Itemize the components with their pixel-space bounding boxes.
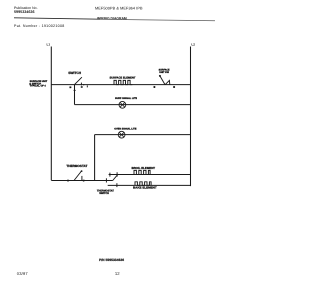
wire row3 drop to thermostat line: [94, 135, 96, 181]
svg-text:SURF SIGNAL LITE: SURF SIGNAL LITE: [115, 97, 137, 100]
wire row2 indicator line: [75, 104, 191, 106]
wire row3 indicator line: [95, 134, 191, 136]
svg-text:L1: L1: [47, 42, 51, 46]
svg-text:OVEN SIGNAL LITE: OVEN SIGNAL LITE: [114, 127, 137, 130]
svg-text:SWITCH: SWITCH: [99, 192, 109, 195]
schematic small labels: [29, 68, 170, 194]
resistor broil element: [134, 170, 150, 174]
wire pilot drop: [74, 85, 76, 105]
svg-text:5995334636: 5995334636: [14, 10, 35, 14]
switch SW1 contact tick: [80, 83, 82, 86]
selector blade to broil: [113, 175, 118, 181]
svg-text:P/N 5995334636: P/N 5995334636: [99, 258, 124, 262]
selector tick on feed: [105, 178, 107, 182]
switch SW2 terminal marks: [154, 86, 175, 87]
switch SW1 blade: [75, 77, 82, 84]
wire L2 bus vertical: [190, 47, 192, 187]
wire broil branch: [109, 174, 191, 176]
svg-text:12: 12: [115, 271, 120, 276]
svg-text:Pat. Number - 1910021008: Pat. Number - 1910021008: [14, 24, 65, 28]
svg-text:BROIL ELEMENT: BROIL ELEMENT: [132, 166, 156, 170]
svg-text:SWITCH: SWITCH: [68, 71, 82, 75]
svg-text:SURFACE ELEMENT: SURFACE ELEMENT: [110, 77, 136, 80]
lamp oven indicator: [118, 131, 125, 138]
wire L1 bus vertical: [50, 47, 52, 181]
svg-text:L2: L2: [191, 42, 195, 46]
thermostat blade with arrowhead: [74, 171, 82, 181]
header rule left: [14, 18, 100, 19]
svg-text:MEF500PB & MEF364 IPB: MEF500PB & MEF364 IPB: [95, 6, 143, 10]
thermostat contact tick: [81, 176, 83, 181]
header rule right: [100, 19, 215, 20]
switch SW1 terminal marks: [70, 85, 88, 90]
svg-text:BAKE ELEMENT: BAKE ELEMENT: [133, 185, 157, 189]
svg-text:03/97: 03/97: [17, 271, 29, 276]
wire thermostat feed: [51, 180, 112, 182]
lamp surface indicator: [119, 101, 126, 108]
resistor surface element: [114, 80, 132, 84]
svg-text:TYPICAL OF 4: TYPICAL OF 4: [30, 85, 47, 88]
header publication block: [14, 6, 143, 28]
broil branch ticks: [110, 172, 117, 176]
switch SW2 blade with tip: [160, 76, 165, 85]
thermostat terminal marks: [67, 180, 84, 181]
switch SW2 contact triangle: [165, 80, 170, 84]
wire row1 main: [51, 84, 190, 86]
bake branch tick: [116, 183, 118, 187]
svg-text:THERMOSTAT: THERMOSTAT: [66, 164, 87, 168]
switch SW1 contact dot: [83, 84, 84, 85]
svg-text:UNIT SW: UNIT SW: [159, 71, 170, 74]
wire bake branch: [108, 184, 191, 186]
resistor bake element: [135, 182, 151, 186]
